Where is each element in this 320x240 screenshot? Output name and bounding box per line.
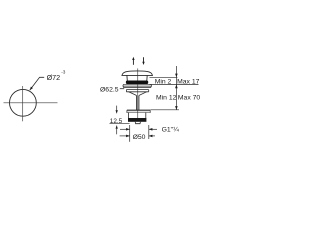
cap skirt (127, 75, 147, 80)
svg-text:Max 70: Max 70 (178, 95, 200, 102)
Ø50 left ext line (129, 125, 131, 142)
vertical centerline of valve (137, 68, 139, 121)
top view: drain cap circle (10, 89, 37, 116)
svg-text:Ø50: Ø50 (133, 134, 146, 141)
nut body sides (128, 113, 145, 118)
bottom plate (127, 109, 150, 111)
vertical dimension line (175, 66, 177, 110)
cap dome (122, 71, 153, 76)
12.5 underline (110, 123, 130, 125)
arrowhead down at 109.8 (175, 106, 178, 110)
leader arrowhead (30, 87, 33, 91)
Ø50 dim right arrow (149, 135, 155, 137)
svg-text:Min 2: Min 2 (155, 78, 172, 85)
12.5 dim lower arrow (116, 126, 118, 135)
washer 1 lower edge (123, 86, 152, 87)
bottom dark band (128, 118, 146, 122)
ext line cap underside (150, 76, 178, 78)
down arrow (close) (143, 57, 145, 63)
Ø50 dim left arrow (120, 135, 130, 137)
svg-text:Ø72: Ø72 (47, 73, 61, 82)
svg-text:Min 12: Min 12 (156, 95, 177, 102)
svg-text:Max 17: Max 17 (177, 78, 200, 85)
ext line rim level (150, 84, 199, 86)
svg-text:G1"¼: G1"¼ (162, 127, 179, 134)
arrowhead up at 84.5 (175, 85, 178, 89)
vertical centerline (22, 86, 24, 121)
arrowhead down at 77.3 (175, 74, 178, 78)
horizontal centerline (4, 102, 58, 104)
Ø50 right ext line (148, 125, 150, 139)
svg-text:Ø62.5: Ø62.5 (100, 87, 119, 94)
up arrow (open) (132, 59, 134, 65)
svg-text:-3: -3 (61, 70, 66, 75)
12.5 dim upper arrow (116, 106, 118, 114)
center tab (135, 122, 140, 124)
taper to stem (129, 92, 147, 96)
washer 1 (bevel washer) (123, 84, 152, 86)
rubber seal (black ring) (126, 81, 148, 85)
locking nut (126, 90, 148, 92)
ext line nut top level (150, 109, 179, 111)
G dim right arrow + leader (149, 128, 157, 130)
G dim left arrow (120, 128, 130, 130)
threaded stem (136, 95, 138, 110)
leader line to circle (30, 77, 45, 90)
